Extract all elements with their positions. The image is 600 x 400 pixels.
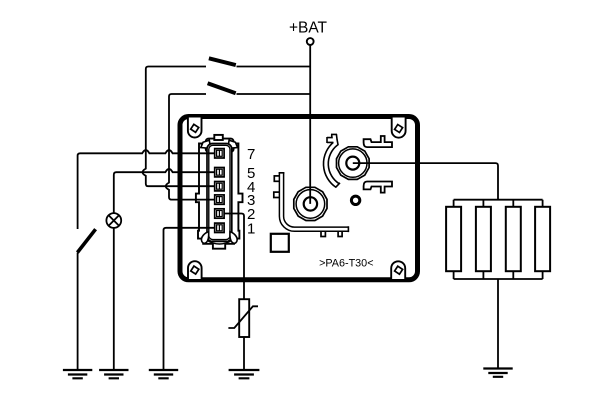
- wire pin 5 to lamp: [114, 169, 215, 213]
- pin 3 box: [215, 195, 224, 204]
- pin 2 box: [215, 209, 224, 218]
- switch S2 blade: [208, 83, 236, 93]
- glow plug 2: [476, 207, 491, 271]
- svg-text:7: 7: [247, 146, 255, 163]
- connector teardrop bottom-left: [201, 232, 208, 244]
- busbar foot 2 under stud B+ bracket: [338, 231, 342, 237]
- wire glow plugs to ground: [497, 279, 499, 369]
- pin 5 box: [215, 168, 224, 177]
- wire pin 7 to ignition switch: [78, 150, 215, 229]
- connector bottom arc: [208, 241, 232, 244]
- wire stud 87 to glow plugs: [353, 163, 498, 200]
- mounting hole top-left: [188, 118, 202, 138]
- switch S2 left wire to pin 3: [166, 94, 215, 200]
- mounting hole top-right diamond: [395, 124, 403, 132]
- busbar tab upper-left of stud B+: [274, 176, 280, 181]
- ignition switch blade: [77, 229, 95, 252]
- wire +BAT vertical to stud 30: [309, 45, 311, 204]
- busbar arc end caps: [327, 134, 340, 187]
- wire thermistor to ground: [243, 337, 245, 370]
- mounting hole bottom-left diamond: [191, 266, 199, 274]
- wire lamp to ground: [113, 228, 115, 370]
- thermistor body: [239, 299, 249, 337]
- stud terminal 30 (battery): [294, 187, 327, 220]
- switch S1 right wire: [237, 66, 311, 68]
- switch S2 right wire: [237, 93, 311, 95]
- indicator lamp: [106, 213, 121, 228]
- busbar L-bracket around stud B+: [282, 173, 349, 229]
- mounting hole bottom-right: [391, 261, 405, 279]
- glow plug bottom bus: [454, 271, 543, 279]
- glow plug 1: [446, 207, 461, 271]
- contact bar upper right of stud 87: [364, 136, 392, 147]
- ground thermistor: [229, 370, 260, 378]
- connector face inner: [209, 145, 230, 239]
- mounting hole top-right: [392, 118, 406, 138]
- switch S1 blade: [209, 58, 236, 65]
- busbar tab lower-left of stud B+: [274, 192, 280, 197]
- wire ignition switch to ground: [77, 253, 79, 371]
- svg-text:>PA6-T30<: >PA6-T30<: [319, 258, 373, 270]
- connector top tab: [214, 135, 223, 140]
- stud terminal 87 (output): [337, 147, 370, 180]
- ground glow plugs: [483, 369, 512, 377]
- ground pin 1: [149, 370, 178, 378]
- internal square: [271, 234, 289, 252]
- svg-text:1: 1: [247, 220, 255, 237]
- svg-text:+BAT: +BAT: [289, 20, 328, 37]
- busbar foot 1 under stud B+ bracket: [321, 231, 325, 237]
- connector shroud outline: [196, 144, 243, 249]
- glow plug top bus: [454, 200, 543, 207]
- mounting hole bottom-left: [188, 261, 202, 279]
- wire pin 1 to ground: [164, 228, 215, 370]
- connector teardrop bottom-right: [230, 232, 237, 244]
- connector ear top-right: [228, 140, 238, 148]
- ground lamp: [99, 370, 128, 378]
- pin 1 box: [215, 223, 224, 232]
- mounting hole bottom-right diamond: [395, 266, 403, 274]
- ground ignition switch: [63, 370, 92, 378]
- pin 7 box: [215, 149, 224, 158]
- busbar arc around stud 87: [326, 134, 338, 185]
- contact bar lower right of stud 87: [364, 182, 392, 193]
- connector face outer: [207, 144, 232, 242]
- indicator ring: [351, 196, 359, 204]
- mounting hole top-left diamond: [191, 124, 199, 132]
- glow plug 3: [506, 207, 521, 271]
- busbar L-bracket end caps: [279, 173, 349, 232]
- pin 4 box: [215, 182, 224, 191]
- connector top body: [206, 139, 234, 152]
- switch S1 left wire to pin 4: [143, 67, 215, 187]
- thermistor diagonal: [228, 306, 258, 328]
- +BAT terminal circle: [307, 38, 314, 45]
- relay module body: [180, 117, 418, 280]
- glow plug 4: [535, 207, 550, 271]
- wire pin 2 to thermistor: [224, 214, 244, 300]
- connector ear top-left: [201, 140, 211, 148]
